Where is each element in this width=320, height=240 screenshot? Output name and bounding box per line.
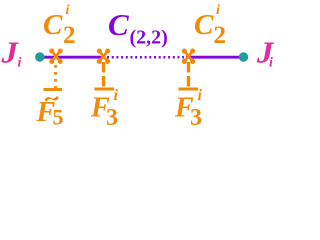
label bar-F_3^i (third F label, orange) [174,87,203,131]
svg-text:i: i [114,87,119,104]
label tilde-bar-F_5 (first F label, orange) [36,88,64,130]
label C_(2,2) (middle, purple) [108,7,168,49]
svg-text:2: 2 [214,22,227,49]
svg-text:i: i [216,3,220,18]
node: right endpoint dot [239,52,248,61]
svg-text:5: 5 [53,105,64,127]
svg-text:C: C [108,7,129,42]
svg-text:3: 3 [190,105,202,126]
svg-text:i: i [198,87,203,104]
label bar-F_3^i (second F label, orange) [90,87,119,131]
node label J_i (left) [0,35,21,71]
wire: fine-dotted vertical under x1 [54,65,57,88]
svg-text:(2,2): (2,2) [130,27,168,49]
svg-text:C: C [43,9,63,41]
x mark 1 [50,49,63,64]
wire: solid segment from left node through x1 to x2 [42,56,104,59]
svg-text:i: i [18,56,22,71]
x mark 2 [97,49,109,64]
x mark 3 [182,49,195,64]
svg-text:i: i [269,56,273,71]
wire: solid segment from x3 to right node [186,56,241,59]
label C_2^i (right, orange) [194,3,226,49]
wire: dotted middle segment between x2 and x3 [107,56,184,59]
label C_2^i (left, orange) [43,3,76,49]
svg-text:i: i [66,3,70,18]
svg-text:C: C [194,9,214,41]
svg-text:2: 2 [63,22,76,49]
wire: dashed vertical under x3 [187,62,190,89]
svg-text:3: 3 [106,105,118,126]
wire: dashed vertical under x2 [102,62,105,88]
node label J_i (right) [256,35,275,71]
node: left endpoint dot [35,52,44,61]
